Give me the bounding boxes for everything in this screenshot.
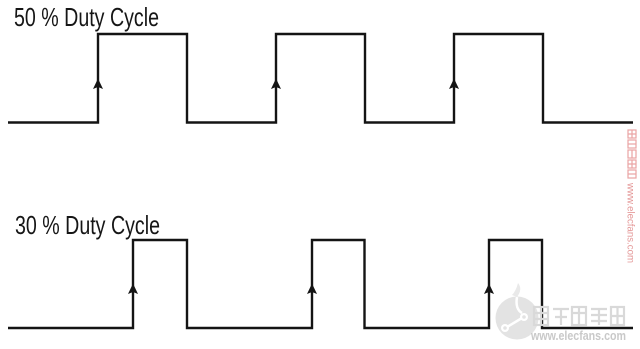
svg-text:50 % Duty Cycle: 50 % Duty Cycle [14,2,159,32]
svg-text:www.elecfans.com: www.elecfans.com [625,182,636,263]
svg-text:30 % Duty Cycle: 30 % Duty Cycle [15,210,160,240]
svg-text:www.elecfans.com: www.elecfans.com [530,328,626,343]
